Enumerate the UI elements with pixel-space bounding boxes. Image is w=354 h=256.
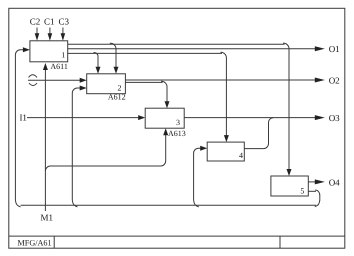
svg-text:1: 1	[61, 51, 65, 60]
svg-text:MFG/A61: MFG/A61	[18, 239, 52, 248]
svg-text:O3: O3	[329, 113, 340, 123]
svg-text:5: 5	[300, 186, 304, 195]
svg-text:C1: C1	[44, 17, 55, 27]
svg-text:3: 3	[176, 118, 180, 127]
svg-text:A613: A613	[168, 129, 186, 138]
svg-text:2: 2	[118, 83, 122, 92]
svg-text:M1: M1	[41, 213, 54, 223]
svg-text:C2: C2	[30, 17, 41, 27]
svg-text:C3: C3	[58, 17, 69, 27]
svg-text:O1: O1	[329, 44, 340, 54]
svg-text:A612: A612	[108, 93, 126, 102]
svg-text:4: 4	[239, 151, 243, 160]
svg-text:A611: A611	[50, 62, 67, 71]
svg-text:I1: I1	[19, 113, 27, 123]
svg-text:O2: O2	[329, 75, 340, 85]
svg-text:O4: O4	[329, 178, 340, 188]
